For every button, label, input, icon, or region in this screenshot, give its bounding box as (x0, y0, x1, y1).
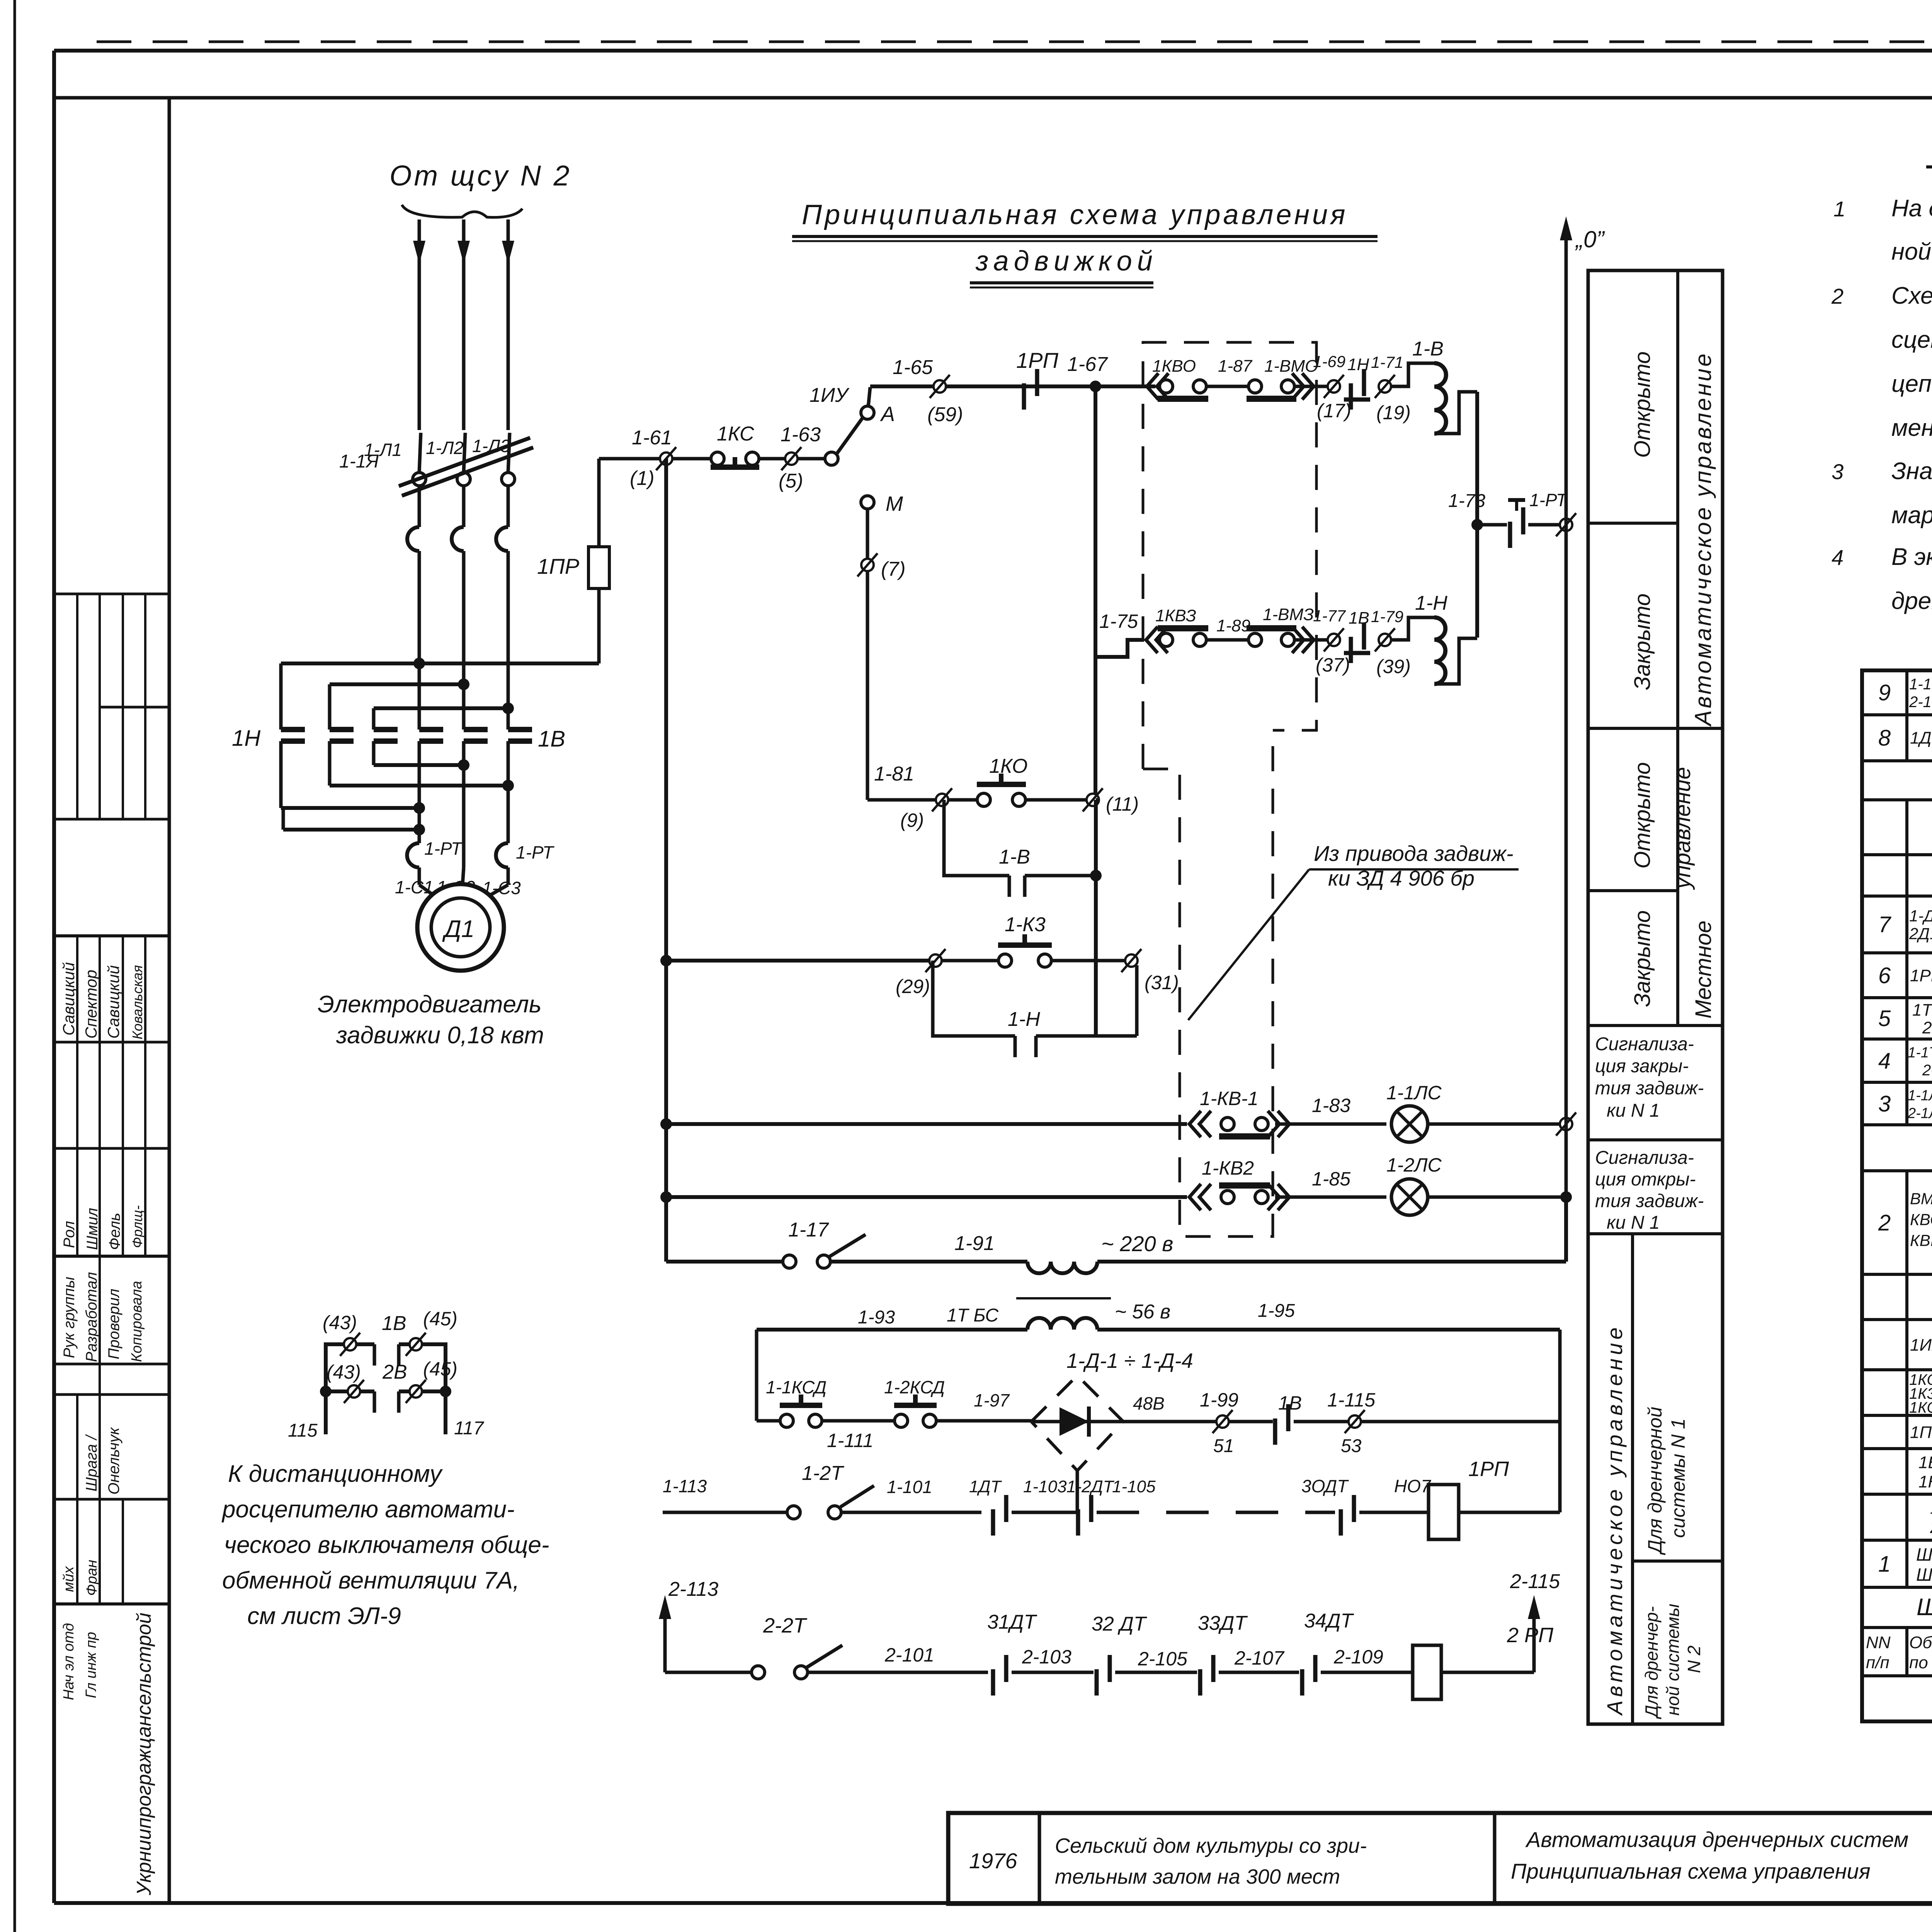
svg-text:1Я÷: 1Я÷ (1930, 1498, 1932, 1517)
svg-text:1КО: 1КО (989, 755, 1027, 777)
svg-text:ция откры-: ция откры- (1595, 1169, 1696, 1190)
svg-text:Гл инж пр: Гл инж пр (83, 1632, 99, 1698)
svg-text:1Н: 1Н (1347, 355, 1369, 374)
svg-text:тия задвиж-: тия задвиж- (1595, 1191, 1704, 1211)
title block frame (948, 1813, 1932, 1904)
svg-text:Для дренчер-: Для дренчер- (1641, 1606, 1662, 1719)
svg-text:Из привода задвиж-: Из привода задвиж- (1314, 841, 1514, 866)
phase wire 1-Л2 with arrow (462, 219, 466, 430)
svg-text:1-2ДТ: 1-2ДТ (1066, 1477, 1115, 1496)
transformer core (1016, 1297, 1111, 1299)
svg-text:2-2Т: 2-2Т (1922, 1062, 1932, 1079)
svg-text:НО7: НО7 (1394, 1476, 1431, 1496)
svg-text:1-В: 1-В (1412, 338, 1444, 360)
bus bottom corner to 220 row (666, 1260, 784, 1264)
contact 1В aux (1349, 637, 1353, 663)
svg-text:6: 6 (1878, 963, 1891, 988)
svg-text:2-1,2 2КСД: 2-1,2 2КСД (1909, 694, 1932, 711)
row 2 left arrow 2-113 (663, 1611, 667, 1672)
svg-text:2-103: 2-103 (1022, 1646, 1071, 1668)
svg-text:8: 8 (1878, 725, 1891, 750)
sensor 32ДТ (1095, 1669, 1099, 1696)
svg-text:115: 115 (288, 1420, 318, 1441)
terminal 1-71 (19) (1379, 380, 1391, 393)
svg-text:В экспликации указаны ма: В экспликации указаны материалы для двух (1891, 544, 1932, 570)
terminal 51 (1216, 1415, 1229, 1428)
svg-text:Ковальская: Ковальская (129, 965, 145, 1039)
svg-text:ШУ N 1: ШУ N 1 (1916, 1544, 1932, 1565)
svg-text:1-63: 1-63 (781, 423, 821, 446)
bridge bottom connection (1076, 1471, 1079, 1512)
svg-text:А: А (880, 403, 895, 426)
svg-text:2В: 2В (382, 1361, 407, 1383)
contactor 1В contacts (419, 727, 443, 732)
svg-text:Схема дренчерной системы: Схема дренчерной системы N 2 для портала (1891, 282, 1932, 309)
svg-text:1-РТ: 1-РТ (516, 842, 554, 862)
bypass 1-В rectangle (944, 800, 1009, 876)
svg-text:1-РТ: 1-РТ (1529, 490, 1568, 510)
svg-text:1-99: 1-99 (1200, 1389, 1238, 1411)
svg-text:тельным залом на 300 мест: тельным залом на 300 мест (1055, 1865, 1340, 1888)
thermal relay 1-РТ left (407, 843, 419, 867)
svg-text:п/п: п/п (1866, 1653, 1889, 1672)
svg-text:1-Д-1 ÷ 1-Д-4: 1-Д-1 ÷ 1-Д-4 (1066, 1349, 1193, 1372)
svg-text:1-1ЛС,1-2ЛС,: 1-1ЛС,1-2ЛС, (1908, 1087, 1932, 1104)
terminal (9) (936, 794, 948, 806)
vertical 1-73 (1475, 392, 1479, 638)
wires below switch (418, 486, 421, 527)
svg-text:Открыто: Открыто (1630, 762, 1655, 869)
svg-text:2-105: 2-105 (1138, 1648, 1187, 1670)
row 2В (320, 1386, 332, 1397)
secondary left drop (755, 1330, 759, 1421)
svg-text:1: 1 (1878, 1551, 1891, 1577)
lamp row 1 wire (660, 1118, 672, 1130)
dashed continuation (1097, 1511, 1335, 1514)
svg-text:сцены аналогична При это: сцены аналогична При этом в маркировках (1891, 327, 1932, 353)
feeder brace (402, 205, 522, 218)
svg-text:Проверил: Проверил (105, 1289, 122, 1359)
svg-text:Для дренчерной: Для дренчерной (1644, 1407, 1666, 1555)
motor Д1 (417, 884, 504, 971)
svg-text:Рук группы: Рук группы (61, 1277, 78, 1358)
svg-text:Шрага /: Шрага / (83, 1434, 100, 1492)
svg-text:Принципиальная схема упра: Принципиальная схема управления (802, 199, 1348, 230)
svg-text:Сигнализа-: Сигнализа- (1595, 1148, 1694, 1168)
row 1-113 with tumbler 1-2Т (663, 1511, 787, 1514)
svg-text:1ПР: 1ПР (537, 554, 579, 578)
svg-text:Обозначен: Обозначен (1909, 1633, 1932, 1652)
svg-text:1-17: 1-17 (788, 1219, 829, 1241)
svg-text:1КС: 1КС (717, 423, 754, 445)
svg-text:1-ВМЗ: 1-ВМЗ (1263, 605, 1314, 624)
svg-text:Фрлщ-: Фрлщ- (129, 1205, 145, 1248)
terminal 53 (1349, 1415, 1361, 1428)
svg-text:1-1КСД: 1-1КСД (766, 1377, 827, 1397)
disconnect switch 1-1Я (413, 473, 426, 486)
terminal (59) (934, 380, 946, 393)
svg-text:1-97: 1-97 (974, 1390, 1010, 1410)
sensor contact 3ОДТ (1339, 1509, 1343, 1536)
svg-text:ки N 1: ки N 1 (1607, 1213, 1660, 1233)
svg-text:От щсу N 2: От щсу N 2 (389, 160, 572, 192)
svg-text:Местное: Местное (1691, 920, 1716, 1019)
svg-text:1-87: 1-87 (1218, 357, 1253, 376)
svg-text:3: 3 (1878, 1091, 1891, 1116)
right arrow 2-115 (1532, 1611, 1536, 1672)
svg-text:2Д1-2Д4: 2Д1-2Д4 (1909, 925, 1932, 943)
svg-text:Знак в скобках соответству: Знак в скобках соответствует заводской (1891, 458, 1932, 485)
svg-text:(31): (31) (1145, 972, 1179, 993)
svg-text:1-65: 1-65 (893, 356, 933, 379)
svg-text:Принципиальная схема упр: Принципиальная схема управления (1511, 1859, 1871, 1883)
wire step to coil 1-Н (1391, 617, 1434, 640)
svg-text:1-К3: 1-К3 (1005, 913, 1046, 936)
svg-text:1-91: 1-91 (954, 1232, 995, 1255)
frame bottom line (54, 1901, 1932, 1905)
frame top dashed scan line (97, 41, 1932, 43)
coil 1-В output loop (1434, 392, 1477, 434)
terminal 1-61 (660, 452, 672, 465)
svg-text:системы N 1: системы N 1 (1667, 1418, 1689, 1538)
junction lamp2 on bus (1560, 1191, 1572, 1203)
svg-text:1-67: 1-67 (1067, 353, 1108, 376)
svg-text:2-115: 2-115 (1510, 1570, 1560, 1593)
terminal (11) (1087, 794, 1099, 806)
svg-text:задвижкой: задвижкой (975, 246, 1158, 277)
sensor 31ДТ (991, 1669, 995, 1696)
svg-text:1-93: 1-93 (858, 1307, 895, 1328)
sensor contact 1-2ДТ (1076, 1509, 1080, 1536)
svg-text:31ДТ: 31ДТ (987, 1611, 1037, 1633)
selector switch 1ИУ (798, 457, 825, 461)
svg-text:1-С1: 1-С1 (395, 877, 434, 897)
phase wire 1-Л3 with arrow (507, 219, 510, 430)
svg-text:1КВЗ: 1КВЗ (1155, 606, 1196, 625)
svg-text:1-Н: 1-Н (1415, 592, 1447, 614)
aux contacts 1В 2В block (326, 1344, 374, 1391)
svg-text:9: 9 (1878, 680, 1891, 705)
svg-text:КВО, КВЗ: КВО, КВЗ (1910, 1211, 1932, 1229)
svg-text:меняется на „2”: меняется на „2” (1891, 415, 1932, 441)
svg-text:1-77: 1-77 (1313, 607, 1346, 625)
svg-text:ВМО,ВМЗ: ВМО,ВМЗ (1910, 1190, 1932, 1208)
svg-text:Рол: Рол (61, 1221, 78, 1248)
terminal (31) (1125, 954, 1138, 967)
svg-text:1-2КСД: 1-2КСД (884, 1377, 945, 1397)
terminal 1-77 (37) (1328, 634, 1340, 646)
left control bus (664, 459, 668, 1262)
svg-text:5: 5 (1878, 1006, 1891, 1031)
svg-text:1-71: 1-71 (1371, 353, 1403, 371)
svg-text:Фран: Фран (84, 1560, 100, 1596)
svg-text:1В: 1В (1349, 609, 1369, 628)
svg-text:2-101: 2-101 (884, 1644, 934, 1666)
svg-text:1В÷2В: 1В÷2В (1918, 1453, 1932, 1472)
svg-text:48В: 48В (1133, 1393, 1165, 1413)
svg-text:(45): (45) (423, 1358, 457, 1380)
svg-text:(39): (39) (1376, 656, 1411, 677)
stub 117 (444, 1391, 447, 1434)
svg-text:1РП: 1РП (1016, 348, 1058, 372)
svg-text:34ДТ: 34ДТ (1304, 1610, 1354, 1632)
svg-text:Разработал: Разработал (83, 1272, 100, 1362)
svg-text:ШУ N 2: ШУ N 2 (1916, 1565, 1932, 1585)
svg-text:(19): (19) (1376, 402, 1411, 423)
coil 1-Н output loop (1434, 638, 1477, 684)
svg-text:117: 117 (454, 1418, 485, 1439)
svg-text:2-109: 2-109 (1333, 1646, 1383, 1668)
tumbler 2-2Т (665, 1671, 752, 1674)
svg-text:2ТБС: 2ТБС (1922, 1018, 1932, 1037)
svg-text:М: М (886, 492, 903, 515)
svg-text:Копировала: Копировала (129, 1281, 145, 1362)
terminal 1-69 (17) (1328, 380, 1340, 393)
svg-text:2 РП: 2 РП (1507, 1624, 1554, 1647)
fuse 1ПР (597, 459, 601, 547)
svg-text:1-81: 1-81 (874, 763, 914, 785)
spec table column lines (1905, 670, 1908, 715)
terminal lamp1 on bus (1560, 1118, 1572, 1130)
svg-text:2-2Т: 2-2Т (763, 1614, 808, 1637)
svg-text:53: 53 (1341, 1436, 1362, 1456)
svg-text:1-103: 1-103 (1023, 1477, 1067, 1496)
svg-text:2-113: 2-113 (668, 1578, 718, 1600)
svg-text:дренчерных систем: дренчерных систем (1891, 588, 1932, 614)
svg-text:1-115: 1-115 (1327, 1389, 1375, 1411)
sheet outer edge line left (14, 0, 16, 1932)
svg-text:2Я: 2Я (1930, 1518, 1932, 1537)
wire M branch (866, 509, 869, 800)
svg-text:1-69: 1-69 (1313, 352, 1345, 371)
svg-text:Шмил: Шмил (84, 1208, 101, 1250)
wire 1-83 (1275, 1122, 1386, 1126)
terminal 1-63 (5) (785, 452, 798, 465)
svg-text:1-83: 1-83 (1312, 1095, 1350, 1116)
svg-text:Автоматическое управление: Автоматическое управление (1690, 352, 1716, 727)
limit switch 1-КВ-1 (1189, 1111, 1201, 1137)
svg-text:1-75: 1-75 (1099, 611, 1138, 632)
limit switch 1КВЗ (1146, 627, 1158, 653)
svg-text:(11): (11) (1106, 793, 1139, 815)
bus continues to bypass (1094, 800, 1098, 1036)
svg-text:32 ДТ: 32 ДТ (1092, 1613, 1147, 1635)
wire 2147 return (282, 808, 285, 830)
pushbutton 1КО (949, 798, 977, 802)
spec table outer frame (1862, 670, 1932, 1721)
wires converge to motor (418, 867, 421, 885)
mode table frame (1588, 270, 1723, 1724)
svg-text:1КВО: 1КВО (1152, 357, 1196, 376)
contactor arc contacts (407, 527, 419, 551)
svg-text:1: 1 (1833, 197, 1845, 221)
rail 1 wire 1-65 (870, 384, 1095, 388)
svg-text:2-1ЛС,2-2ЛС: 2-1ЛС,2-2ЛС (1907, 1105, 1932, 1121)
svg-text:1КС-2КС: 1КС-2КС (1909, 1399, 1932, 1416)
phase wire 1-Л1 with arrow (418, 219, 421, 430)
svg-text:1В: 1В (538, 726, 565, 752)
branch from bus to rail2 (1095, 386, 1144, 657)
svg-text:Д1: Д1 (442, 916, 474, 942)
bus 0 right vertical (1565, 232, 1568, 1262)
svg-text:1-1Я: 1-1Я (339, 451, 379, 472)
contact 1В in rectifier row (1273, 1418, 1277, 1445)
svg-text:1-95: 1-95 (1258, 1301, 1295, 1321)
frame outer border (54, 49, 1932, 53)
limit switch 1-ВМО (1248, 380, 1262, 393)
svg-text:Закрыто: Закрыто (1630, 910, 1655, 1007)
sensor 34ДТ (1300, 1669, 1304, 1696)
stamp table block (54, 934, 169, 937)
thermal relay 1-РТ right (496, 843, 509, 867)
svg-text:(17): (17) (1317, 400, 1351, 422)
mode table bottom divider (1631, 1234, 1634, 1724)
svg-text:Сигнализа-: Сигнализа- (1595, 1034, 1694, 1054)
svg-text:1ТБС-: 1ТБС- (1912, 1000, 1932, 1019)
svg-text:1-85: 1-85 (1312, 1168, 1350, 1190)
svg-text:маркировке клемм: маркировке клемм (1891, 502, 1932, 529)
svg-text:51: 51 (1213, 1436, 1234, 1456)
svg-text:1-Н: 1-Н (1008, 1008, 1040, 1031)
svg-text:Онельчук: Онельчук (105, 1427, 122, 1495)
stamp upper block lines (54, 593, 169, 595)
terminal (29) (929, 954, 942, 967)
svg-text:1-73: 1-73 (1448, 491, 1485, 511)
phase wires to thermal relays (418, 741, 421, 843)
svg-text:4: 4 (1878, 1048, 1891, 1073)
svg-text:1-101: 1-101 (887, 1477, 932, 1497)
svg-text:(43): (43) (323, 1312, 357, 1333)
svg-text:1-1Т,1-2Т,2-1Т: 1-1Т,1-2Т,2-1Т (1908, 1044, 1932, 1061)
svg-text:Сельский дом культуры со: Сельский дом культуры со зри- (1055, 1834, 1367, 1857)
terminal (45) bottom (410, 1385, 422, 1398)
svg-text:1-113: 1-113 (663, 1476, 707, 1496)
svg-text:КВI, КВ2: КВI, КВ2 (1910, 1231, 1932, 1250)
sensor contact 1ДТ (991, 1509, 995, 1536)
switch 1-17 (783, 1255, 796, 1268)
svg-text:1ДТ: 1ДТ (969, 1477, 1002, 1496)
svg-text:1Н: 1Н (232, 726, 260, 751)
1Н return wires (372, 741, 376, 765)
svg-text:1ИУ: 1ИУ (810, 384, 850, 406)
transformer 1ТБС secondary (757, 1328, 1027, 1332)
wire 1-85 (1275, 1196, 1386, 1199)
svg-text:обменной вентиляции 7А,: обменной вентиляции 7А, (222, 1567, 519, 1594)
svg-text:1-2ЛС: 1-2ЛС (1386, 1154, 1442, 1176)
svg-text:1-61: 1-61 (632, 427, 672, 449)
terminal (45) top (410, 1338, 422, 1350)
terminal (7) (861, 559, 874, 571)
svg-text:ной системы: ной системы (1663, 1604, 1683, 1716)
svg-text:1-2Т: 1-2Т (802, 1462, 844, 1485)
svg-text:ческого выключателя обще-: ческого выключателя обще- (224, 1532, 549, 1558)
dashed box around limit switches (1143, 342, 1316, 769)
spec table row lines (1862, 713, 1932, 716)
svg-text:Фель: Фель (106, 1213, 123, 1250)
relay coil 2РП (1413, 1645, 1441, 1699)
svg-text:(45): (45) (423, 1308, 457, 1330)
svg-text:1-105: 1-105 (1112, 1477, 1156, 1496)
svg-text:„0”: „0” (1575, 226, 1605, 252)
svg-text:1ДТ-34ДТ: 1ДТ-34ДТ (1910, 728, 1932, 747)
svg-text:1-111: 1-111 (827, 1430, 873, 1451)
frame inner top line (54, 96, 1932, 100)
limit switch 1-ВМЗ (1248, 633, 1262, 646)
row 1КО wire 1-81 (867, 798, 936, 802)
svg-text:(43): (43) (327, 1361, 361, 1383)
terminal 1-79 (39) (1379, 634, 1391, 646)
contactor 1Н contacts (279, 663, 283, 730)
svg-text:задвижки 0,18 квт: задвижки 0,18 квт (336, 1022, 544, 1049)
svg-text:Закрыто: Закрыто (1630, 594, 1655, 690)
contact 1Н aux (1349, 383, 1353, 410)
wire step to coil 1-В (1391, 363, 1434, 386)
svg-text:Нач эл отд: Нач эл отд (61, 1623, 77, 1700)
limit switch 1КВО (1147, 373, 1158, 400)
svg-text:тия задвиж-: тия задвиж- (1595, 1078, 1704, 1099)
svg-text:1В: 1В (1278, 1392, 1302, 1414)
svg-text:(1): (1) (630, 467, 655, 490)
svg-text:ной системы N 1 для I га: ной системы N 1 для I галереи, II галере… (1891, 238, 1932, 265)
lamp 1-2ЛС (1391, 1179, 1428, 1215)
svg-text:1Т БС: 1Т БС (947, 1305, 999, 1326)
bypass 1-Н rectangle (933, 961, 1015, 1036)
terminal on bus 0 (1560, 519, 1572, 531)
svg-text:Автоматическое управление: Автоматическое управление (1602, 1324, 1627, 1716)
sensor 33ДТ (1198, 1669, 1202, 1696)
svg-text:1-1ЛС: 1-1ЛС (1386, 1082, 1442, 1104)
stamp column right border (168, 98, 171, 1903)
contact М of selector (861, 496, 874, 509)
button 1-1КСД (757, 1419, 781, 1423)
svg-text:1-РТ: 1-РТ (424, 838, 463, 859)
svg-text:1976: 1976 (969, 1849, 1017, 1873)
svg-text:управление: управление (1670, 767, 1695, 890)
contact 1-РТ (1477, 523, 1507, 527)
svg-text:1РП: 1РП (1468, 1458, 1509, 1481)
svg-text:К дистанционному: К дистанционному (228, 1461, 443, 1487)
svg-text:цепей и обозначениях аппа: цепей и обозначениях аппаратов индекс „1… (1891, 371, 1932, 397)
svg-text:3: 3 (1832, 459, 1844, 484)
svg-text:Спектор: Спектор (82, 970, 100, 1039)
svg-text:2-107: 2-107 (1234, 1647, 1285, 1669)
svg-text:Шкафы управления дренчерн: Шкафы управления дренчерными задвижками (1917, 1594, 1932, 1621)
junction 1-67 (1090, 381, 1101, 392)
svg-text:росцепителю автомати-: росцепителю автомати- (221, 1496, 515, 1523)
row 1-КЗ (660, 955, 672, 966)
svg-text:по схеме: по схеме (1909, 1653, 1932, 1672)
svg-text:1РП-2РП: 1РП-2РП (1910, 966, 1932, 985)
svg-text:3ОДТ: 3ОДТ (1301, 1476, 1349, 1496)
pushbutton 1КС (672, 457, 716, 461)
svg-text:2: 2 (1878, 1210, 1891, 1235)
wire horizontal to 1Н block top 1 (281, 662, 599, 665)
terminal (43) bottom (348, 1385, 360, 1398)
svg-text:Савицкий: Савицкий (60, 962, 78, 1036)
svg-text:~ 220 в: ~ 220 в (1101, 1231, 1173, 1256)
svg-text:~ 56 в: ~ 56 в (1115, 1301, 1170, 1323)
svg-text:ция закры-: ция закры- (1595, 1056, 1689, 1077)
svg-text:Савицкий: Савицкий (104, 965, 122, 1039)
svg-text:На данном чертеже привед: На данном чертеже приведена схема дренче… (1891, 195, 1932, 222)
svg-text:(59): (59) (927, 403, 963, 426)
svg-text:33ДТ: 33ДТ (1198, 1612, 1248, 1634)
svg-text:Автоматизация дренчерных: Автоматизация дренчерных систем (1525, 1827, 1908, 1852)
svg-text:1В: 1В (382, 1312, 406, 1335)
svg-text:мйх: мйх (61, 1566, 77, 1592)
svg-text:4: 4 (1832, 545, 1844, 570)
transformer 1ТБС primary (1027, 1262, 1097, 1273)
